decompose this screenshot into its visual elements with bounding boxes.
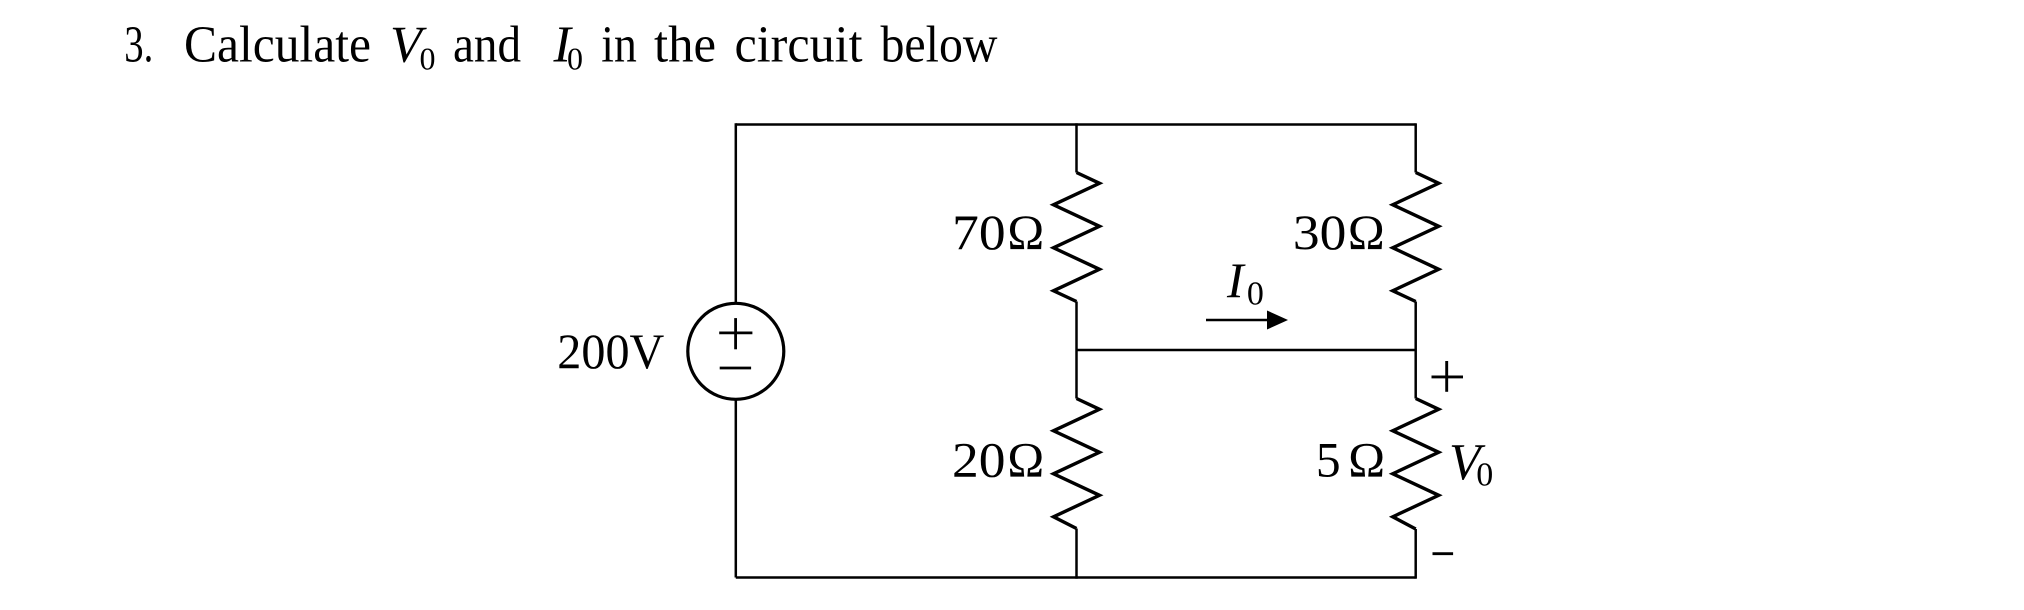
wire left branch bottom	[735, 399, 738, 577]
wire bottom rail	[736, 576, 1416, 579]
svg-text:200V: 200V	[557, 324, 664, 379]
svg-text:0: 0	[567, 41, 583, 77]
svg-text:70: 70	[952, 205, 1006, 260]
wire top rail	[736, 123, 1416, 126]
resistor 20 ohm	[1054, 399, 1100, 529]
svg-text:and: and	[453, 17, 521, 74]
voltage source minus sign	[720, 367, 751, 370]
svg-text:Ω: Ω	[1348, 205, 1385, 260]
resistor 70 ohm	[1054, 173, 1100, 302]
svg-text:30: 30	[1293, 205, 1347, 260]
wire middle branch bottom stub	[1075, 529, 1078, 579]
svg-text:0: 0	[1247, 276, 1264, 313]
svg-text:0: 0	[420, 41, 436, 77]
svg-text:Ω: Ω	[1348, 432, 1385, 487]
svg-text:Ω: Ω	[1007, 205, 1044, 260]
svg-text:circuit: circuit	[735, 17, 864, 74]
wire middle branch top stub	[1075, 123, 1078, 172]
wire middle branch between 70ohm and 20ohm	[1075, 302, 1078, 399]
svg-text:Ω: Ω	[1007, 432, 1044, 487]
polarity minus for V0	[1433, 552, 1454, 555]
title text	[124, 17, 998, 77]
resistor 5 ohm	[1393, 399, 1439, 530]
svg-text:I: I	[1226, 252, 1246, 308]
svg-text:Calculate: Calculate	[184, 17, 371, 74]
svg-text:5: 5	[1316, 432, 1341, 487]
svg-text:3.: 3.	[124, 17, 153, 74]
wire right branch bottom stub	[1414, 529, 1417, 579]
svg-text:20: 20	[952, 432, 1006, 487]
resistor 30 ohm	[1393, 173, 1439, 302]
svg-text:below: below	[881, 17, 998, 74]
voltage source plus sign	[719, 318, 752, 349]
svg-text:the: the	[654, 17, 716, 74]
voltage source 200V circle	[688, 303, 784, 399]
svg-text:0: 0	[1476, 456, 1493, 493]
wire right branch between 30ohm and 5ohm	[1414, 302, 1417, 399]
current arrow I0	[1206, 311, 1288, 330]
wire left branch top	[735, 123, 738, 303]
wire right branch top stub	[1414, 123, 1417, 172]
svg-text:in: in	[601, 17, 637, 74]
wire middle horizontal (node between branches)	[1077, 349, 1416, 352]
polarity plus for V0	[1432, 361, 1464, 392]
